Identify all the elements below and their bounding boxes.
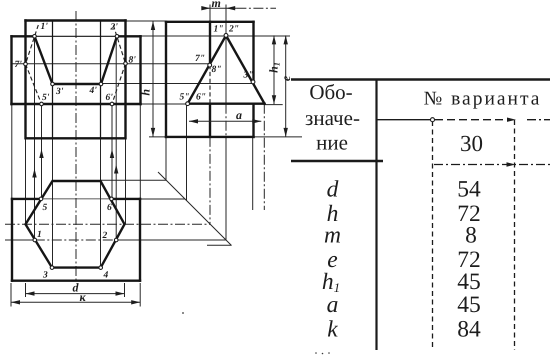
svg-text:6": 6" — [196, 93, 206, 103]
svg-text:6: 6 — [107, 203, 112, 213]
svg-text:k: k — [327, 317, 338, 343]
svg-text:2": 2" — [228, 25, 239, 35]
svg-text:4': 4' — [89, 86, 98, 96]
svg-text:45: 45 — [457, 292, 481, 318]
svg-text:d: d — [327, 177, 339, 203]
svg-text:№ варианта: № варианта — [424, 89, 542, 110]
svg-text:3': 3' — [55, 87, 64, 97]
svg-text:8": 8" — [212, 65, 222, 75]
svg-text:значе-: значе- — [305, 106, 360, 130]
svg-text:84: 84 — [457, 317, 481, 343]
svg-text:1': 1' — [41, 22, 49, 32]
svg-text:5": 5" — [180, 93, 190, 103]
svg-text:h: h — [139, 89, 153, 96]
svg-text:5': 5' — [42, 93, 50, 103]
svg-text:к: к — [80, 290, 87, 304]
svg-text:7": 7" — [195, 54, 205, 64]
svg-text:e: e — [279, 75, 293, 81]
svg-text:2: 2 — [102, 231, 108, 241]
svg-text:5: 5 — [43, 203, 48, 213]
svg-text:3: 3 — [42, 271, 48, 281]
svg-text:6': 6' — [106, 93, 114, 103]
svg-text:1: 1 — [37, 230, 42, 240]
svg-text:ние: ние — [316, 131, 348, 155]
svg-text:3": 3" — [243, 71, 254, 81]
svg-text:30: 30 — [460, 131, 483, 156]
svg-text:4: 4 — [103, 271, 109, 281]
svg-text:7': 7' — [15, 60, 23, 70]
svg-text:8': 8' — [129, 56, 137, 66]
svg-text:8: 8 — [465, 223, 477, 249]
svg-text:54: 54 — [457, 177, 481, 203]
svg-text:Обо-: Обо- — [309, 80, 352, 104]
svg-text:1": 1" — [214, 25, 224, 35]
svg-text:d: d — [73, 281, 80, 295]
svg-text:m: m — [324, 223, 341, 249]
svg-text:m: m — [212, 0, 221, 10]
svg-text:2': 2' — [110, 23, 119, 33]
svg-text:a: a — [327, 292, 339, 318]
svg-text:a: a — [236, 108, 242, 122]
